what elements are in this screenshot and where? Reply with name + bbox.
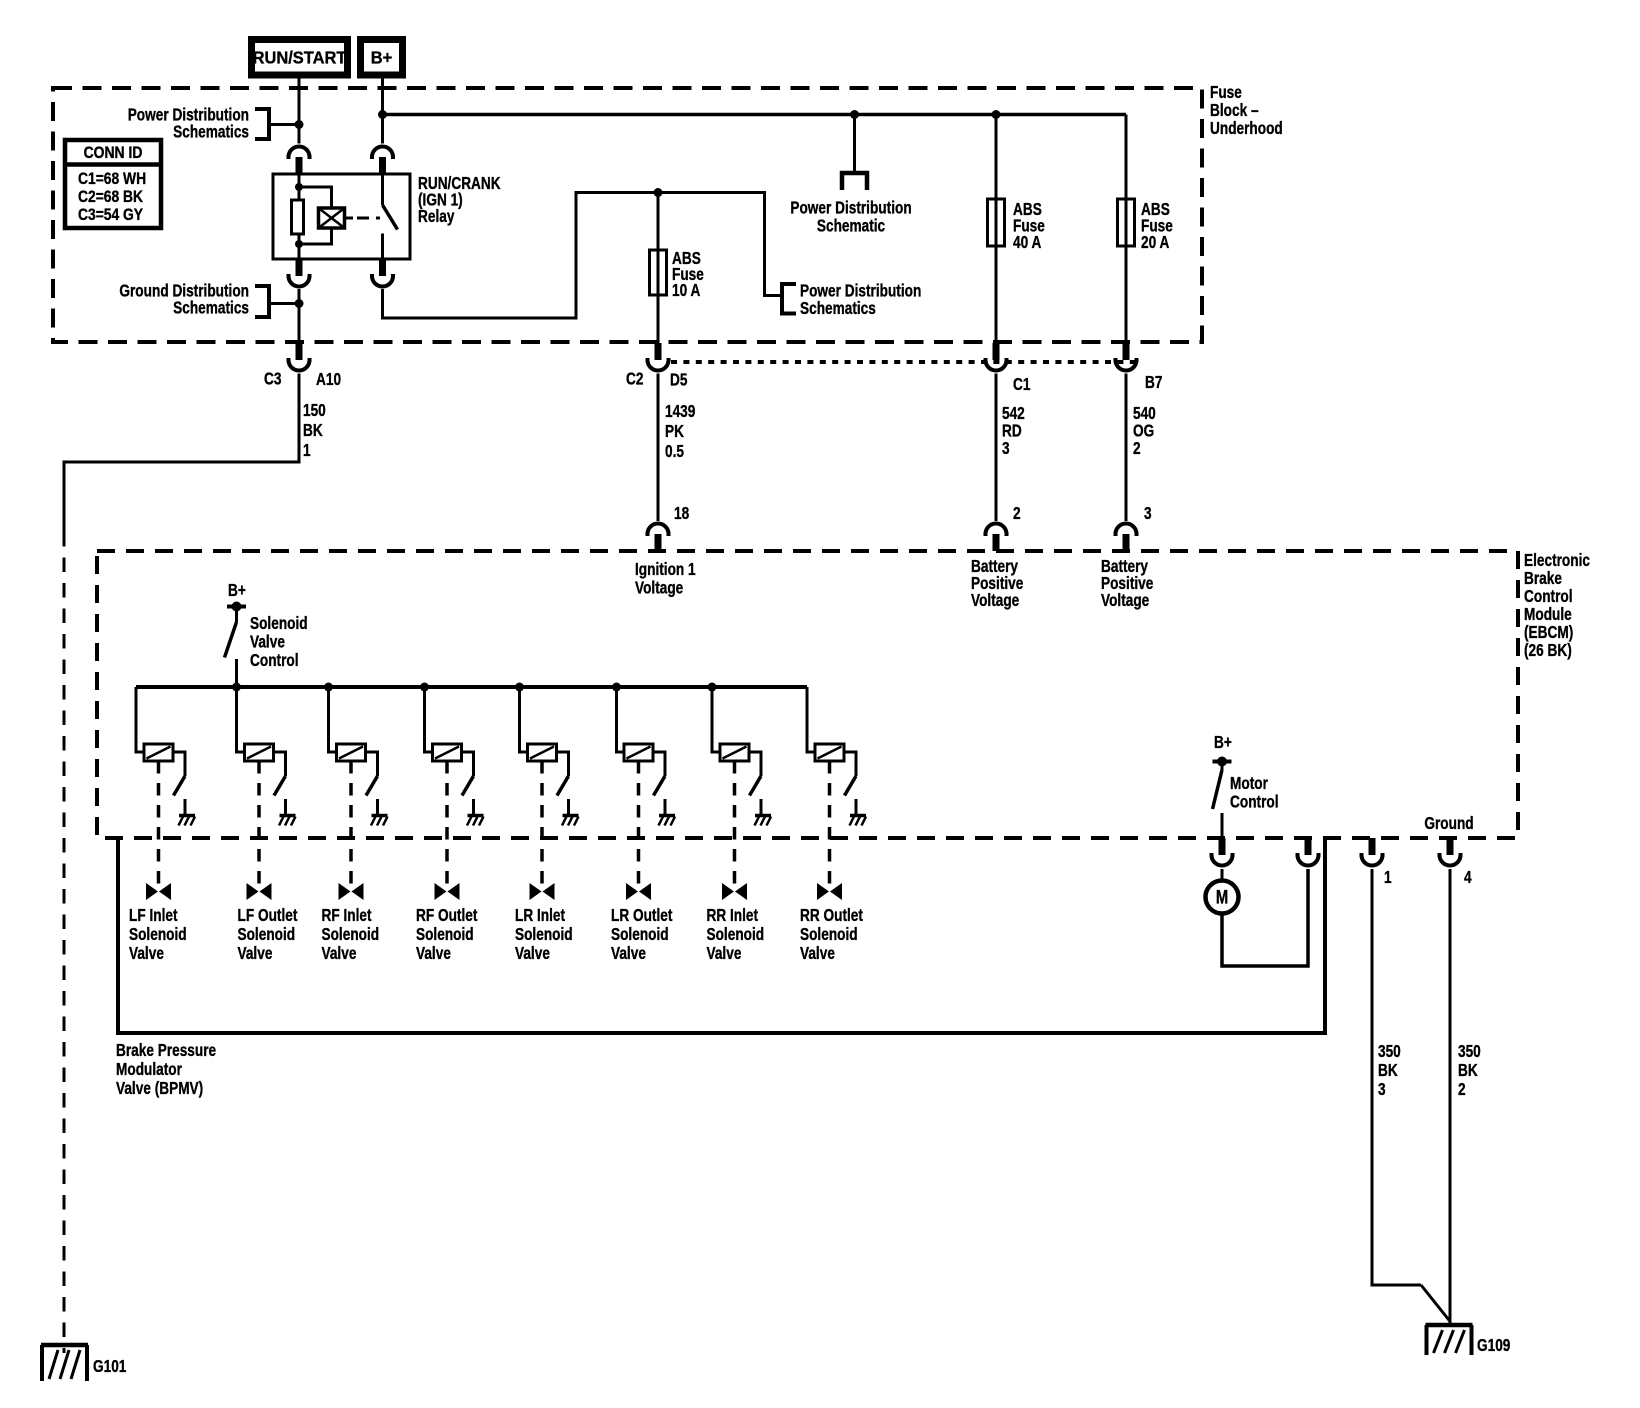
label Ignition 1 Voltage [635, 560, 696, 597]
solenoid driver LF Outlet [237, 687, 286, 814]
wire 1439 PK to EBCM pin 18 [657, 374, 660, 522]
svg-text:Valve: Valve [416, 944, 451, 963]
svg-text:3: 3 [1378, 1080, 1386, 1099]
svg-text:C3: C3 [264, 370, 282, 389]
ground G101 [41, 1345, 88, 1381]
B+ terminal solenoid valve control [227, 602, 246, 612]
connector EBCM motor return pin [1296, 838, 1321, 866]
label LR Inlet Solenoid Valve [515, 906, 573, 963]
svg-text:Valve: Valve [322, 944, 357, 963]
label B7 [1145, 373, 1163, 392]
label 350 BK 2 [1458, 1042, 1481, 1099]
fuse block underhood dashed box [53, 88, 1202, 342]
svg-text:B+: B+ [1214, 733, 1232, 752]
solenoid driver LR Outlet [617, 687, 666, 814]
label Electronic Brake Control Module (EBCM) (26 BK) [1524, 551, 1590, 660]
valve symbol RF Outlet Solenoid Valve [435, 883, 460, 900]
svg-text:Valve: Valve [238, 944, 273, 963]
svg-text:M: M [1216, 887, 1228, 908]
connector EBCM motor + pin [1210, 838, 1235, 866]
wire driver to LF Inlet solenoid valve (dashed) [157, 761, 161, 890]
svg-text:Brake Pressure: Brake Pressure [116, 1041, 216, 1060]
svg-text:D5: D5 [670, 371, 688, 390]
svg-text:Solenoid: Solenoid [416, 925, 474, 944]
solenoid driver RR Inlet [712, 687, 761, 814]
svg-text:Valve: Valve [129, 944, 164, 963]
connector C3/A10 [287, 343, 312, 371]
B+ terminal motor control [1213, 757, 1232, 767]
svg-text:18: 18 [674, 504, 689, 523]
valve symbol RF Inlet Solenoid Valve [339, 883, 364, 900]
wire motor return loop [1222, 869, 1308, 966]
connector EBCM pin 18 [646, 524, 671, 552]
svg-text:542: 542 [1002, 404, 1025, 423]
off-page reference Power Distribution Schematics (right) [782, 282, 921, 318]
svg-text:BK: BK [1378, 1061, 1398, 1080]
relay actuator dashed link [357, 217, 380, 220]
wire 150 BK dashed continuation to G101 [63, 532, 66, 1353]
relay coil resistor [292, 174, 304, 259]
svg-text:C2=68 BK: C2=68 BK [78, 188, 143, 206]
svg-text:RF Inlet: RF Inlet [322, 906, 373, 925]
svg-text:540: 540 [1133, 404, 1156, 423]
connector relay switch pin (fuse block socket) [370, 147, 395, 175]
junction node ground distribution tap [295, 299, 304, 308]
wire driver to RR Outlet solenoid valve (dashed) [828, 761, 832, 890]
wire 350 BK 2 to G109 [1449, 869, 1452, 1325]
label 542 RD 3 [1002, 404, 1025, 458]
svg-text:Schematics: Schematics [173, 299, 249, 318]
label pin 1 [1384, 868, 1392, 887]
connector EBCM pin 3 [1114, 524, 1139, 552]
label pin 2 [1013, 504, 1021, 523]
svg-text:Voltage: Voltage [971, 591, 1020, 610]
label A10 [316, 370, 341, 389]
label Brake Pressure Modulator Valve (BPMV) [116, 1041, 216, 1098]
label 540 OG 2 [1133, 404, 1156, 458]
label 1439 PK 0.5 [665, 402, 696, 461]
wire 350 BK 3 to G109 [1372, 869, 1451, 1322]
label B+ solenoid valve control [228, 581, 246, 600]
label LF Inlet Solenoid Valve [129, 906, 187, 963]
wire fuse 10A branch [657, 193, 660, 344]
relay RUN/CRANK (IGN 1) outline [273, 174, 410, 259]
node relay coil bottom [295, 240, 303, 248]
svg-text:2: 2 [1013, 504, 1021, 523]
svg-text:B+: B+ [371, 48, 393, 68]
svg-text:Module: Module [1524, 605, 1572, 624]
label LR Outlet Solenoid Valve [611, 906, 673, 963]
svg-text:BK: BK [1458, 1061, 1478, 1080]
label Motor Control [1230, 774, 1279, 811]
label C3 [264, 370, 282, 389]
svg-text:A10: A10 [316, 370, 341, 389]
svg-text:RR Inlet: RR Inlet [707, 906, 759, 925]
wire 542 RD to EBCM pin 2 [995, 374, 998, 522]
ground chassis (driver LR Inlet) [562, 816, 579, 826]
valve symbol LR Outlet Solenoid Valve [626, 883, 651, 900]
label 350 BK 3 [1378, 1042, 1401, 1099]
svg-text:Solenoid: Solenoid [129, 925, 187, 944]
junction node driver bus tap RF Inlet [324, 683, 333, 692]
svg-text:C1: C1 [1013, 375, 1031, 394]
ground chassis (driver LF Outlet) [279, 816, 296, 826]
connector B7 [1114, 343, 1139, 371]
label C1 [1013, 375, 1031, 394]
label RUN/CRANK (IGN 1) Relay [418, 174, 501, 226]
label RF Outlet Solenoid Valve [416, 906, 478, 963]
label C2 [626, 370, 644, 389]
svg-text:40 A: 40 A [1013, 233, 1041, 252]
svg-text:Voltage: Voltage [635, 579, 684, 598]
wire fuse 40A branch [995, 115, 998, 344]
svg-text:Relay: Relay [418, 207, 455, 226]
relay switch contact [383, 174, 398, 259]
label Solenoid Valve Control [250, 614, 308, 670]
svg-text:(EBCM): (EBCM) [1524, 623, 1573, 642]
label B+ motor control [1214, 733, 1232, 752]
svg-text:RF Outlet: RF Outlet [416, 906, 478, 925]
svg-text:LF Inlet: LF Inlet [129, 906, 178, 925]
power feed tag RUN/START [252, 40, 348, 76]
svg-text:BK: BK [303, 421, 323, 440]
svg-text:Control: Control [1524, 587, 1573, 606]
svg-text:RD: RD [1002, 422, 1022, 441]
ground chassis (driver RR Outlet) [850, 816, 867, 826]
svg-text:Valve: Valve [611, 944, 646, 963]
svg-text:Schematics: Schematics [173, 123, 249, 142]
junction node fuse 40A tap [992, 110, 1001, 119]
valve symbol RR Inlet Solenoid Valve [722, 883, 747, 900]
wire fuse 20A branch [1125, 115, 1128, 344]
svg-text:Solenoid: Solenoid [800, 925, 858, 944]
off-page reference Ground Distribution Schematics [119, 282, 299, 318]
svg-text:2: 2 [1133, 439, 1141, 458]
label RR Outlet Solenoid Valve [800, 906, 864, 963]
solenoid driver RF Outlet [425, 687, 474, 814]
label D5 [670, 371, 688, 390]
pump motor M [1206, 869, 1239, 914]
connector EBCM pin 1 [1360, 838, 1385, 866]
svg-text:C3=54 GY: C3=54 GY [78, 206, 143, 224]
connector relay coil pin 85 (bottom) [287, 259, 312, 287]
connector EBCM pin 4 (ground) [1438, 838, 1463, 866]
svg-text:Underhood: Underhood [1210, 119, 1283, 138]
wire driver to LR Outlet solenoid valve (dashed) [637, 761, 641, 890]
wire relay switch output to ABS fuse 10A feed [383, 193, 781, 319]
label Battery Positive Voltage (pin 3) [1101, 557, 1154, 610]
switch motor control [1213, 762, 1223, 839]
valve symbol RR Outlet Solenoid Valve [817, 883, 842, 900]
ground chassis (driver RF Inlet) [371, 816, 388, 826]
junction node driver bus tap LF Outlet [232, 683, 241, 692]
label pin 3 [1144, 504, 1152, 523]
label G109 [1477, 1336, 1511, 1355]
svg-text:20 A: 20 A [1141, 233, 1169, 252]
off-page reference Power Distribution Schematics (left) [128, 106, 299, 142]
svg-text:350: 350 [1378, 1042, 1401, 1061]
junction node power distribution tap [295, 120, 304, 129]
wire 150 BK to G101 (solid part) [64, 374, 299, 533]
label RF Inlet Solenoid Valve [322, 906, 380, 963]
svg-text:3: 3 [1002, 439, 1010, 458]
ground chassis (driver RR Inlet) [755, 816, 772, 826]
wire driver to RF Inlet solenoid valve (dashed) [349, 761, 353, 890]
svg-text:0.5: 0.5 [665, 442, 684, 461]
svg-text:C2: C2 [626, 370, 644, 389]
junction node driver bus tap RR Inlet [708, 683, 717, 692]
svg-text:OG: OG [1133, 422, 1154, 441]
wire B+ down to relay switch connector [381, 75, 384, 144]
svg-text:Solenoid: Solenoid [238, 925, 296, 944]
connector EBCM pin 2 [984, 524, 1009, 552]
svg-text:1: 1 [1384, 868, 1392, 887]
EBCM harness connector dotted line [671, 360, 1140, 364]
svg-text:G101: G101 [93, 1357, 127, 1376]
junction node fuse 10A feed [654, 188, 663, 197]
svg-text:Ignition 1: Ignition 1 [635, 560, 696, 579]
label 150 BK 1 [303, 401, 326, 460]
svg-text:Voltage: Voltage [1101, 591, 1150, 610]
junction node driver bus tap LR Inlet [515, 683, 524, 692]
svg-text:B+: B+ [228, 581, 246, 600]
EBCM dashed box [97, 551, 1518, 838]
solenoid driver RF Inlet [329, 687, 378, 814]
off-page stub Power Distribution Schematic (top) [790, 115, 911, 236]
svg-text:B7: B7 [1145, 373, 1163, 392]
svg-text:1: 1 [303, 441, 311, 460]
svg-text:C1=68 WH: C1=68 WH [78, 170, 146, 188]
svg-text:Valve: Valve [800, 944, 835, 963]
svg-text:LF Outlet: LF Outlet [238, 906, 299, 925]
solenoid driver bus wire [136, 685, 807, 689]
svg-text:Solenoid: Solenoid [611, 925, 669, 944]
label pin 4 [1464, 868, 1472, 887]
svg-text:Block –: Block – [1210, 101, 1259, 120]
valve symbol LF Inlet Solenoid Valve [146, 883, 171, 900]
label RR Inlet Solenoid Valve [707, 906, 765, 963]
svg-text:PK: PK [665, 422, 685, 441]
wire driver to RF Outlet solenoid valve (dashed) [445, 761, 449, 890]
valve symbol LR Inlet Solenoid Valve [530, 883, 555, 900]
power feed tag B+ [361, 40, 403, 76]
top bus wire B+ to ABS fuses [383, 113, 1127, 117]
svg-text:Schematic: Schematic [817, 217, 885, 236]
ground chassis (driver RF Outlet) [467, 816, 484, 826]
valve symbol LF Outlet Solenoid Valve [247, 883, 272, 900]
label pin 18 [674, 504, 689, 523]
svg-text:350: 350 [1458, 1042, 1481, 1061]
svg-text:RR Outlet: RR Outlet [800, 906, 864, 925]
label Ground [1424, 814, 1473, 833]
ground G109 [1426, 1325, 1473, 1355]
svg-text:Schematics: Schematics [800, 299, 876, 318]
wire driver to LR Inlet solenoid valve (dashed) [540, 761, 544, 890]
svg-text:Valve: Valve [707, 944, 742, 963]
ABS Fuse 40 A [988, 199, 1046, 252]
BPMV outline box [118, 838, 1325, 1033]
svg-text:Brake: Brake [1524, 569, 1562, 588]
svg-text:RUN/START: RUN/START [253, 48, 347, 68]
svg-text:150: 150 [303, 401, 326, 420]
svg-text:10 A: 10 A [672, 281, 700, 300]
svg-text:3: 3 [1144, 504, 1152, 523]
svg-text:Electronic: Electronic [1524, 551, 1590, 570]
wire relay coil to C3 exit [298, 289, 301, 343]
ABS Fuse 10 A [650, 249, 705, 300]
connector C1 [984, 343, 1009, 371]
svg-text:Power Distribution: Power Distribution [800, 282, 921, 301]
CONN ID table [63, 140, 163, 228]
switch solenoid valve control [225, 607, 237, 689]
svg-text:CONN ID: CONN ID [84, 144, 143, 163]
svg-text:Solenoid: Solenoid [250, 614, 308, 633]
label Battery Positive Voltage (pin 2) [971, 557, 1024, 610]
svg-text:Fuse: Fuse [1210, 83, 1242, 102]
svg-text:2: 2 [1458, 1080, 1466, 1099]
label G101 [93, 1357, 127, 1376]
svg-text:Valve (BPMV): Valve (BPMV) [116, 1079, 203, 1098]
connector relay coil pin (fuse block socket) [287, 147, 312, 175]
junction node B+ bus [378, 110, 387, 119]
svg-text:G109: G109 [1477, 1336, 1511, 1355]
svg-text:Ground: Ground [1424, 814, 1473, 833]
ground chassis (driver LR Outlet) [659, 816, 676, 826]
svg-text:Valve: Valve [250, 633, 285, 652]
node relay coil top [295, 183, 303, 191]
connector relay switch output pin (bottom) [370, 259, 395, 287]
connector C2/D5 [646, 343, 671, 371]
wire driver to RR Inlet solenoid valve (dashed) [733, 761, 737, 890]
junction node driver bus tap LR Outlet [612, 683, 621, 692]
svg-text:Valve: Valve [515, 944, 550, 963]
svg-text:4: 4 [1464, 868, 1472, 887]
svg-text:Control: Control [1230, 793, 1279, 812]
wire 540 OG to EBCM pin 3 [1125, 374, 1128, 522]
svg-text:(26 BK): (26 BK) [1524, 641, 1572, 660]
svg-text:LR Inlet: LR Inlet [515, 906, 566, 925]
relay winding symbol [299, 187, 353, 244]
wire RUN/START down to relay coil connector [298, 75, 301, 144]
solenoid driver LR Inlet [520, 687, 569, 814]
svg-text:Solenoid: Solenoid [515, 925, 573, 944]
label LF Outlet Solenoid Valve [238, 906, 299, 963]
solenoid driver LF Inlet [136, 687, 185, 814]
svg-text:Modulator: Modulator [116, 1060, 182, 1079]
svg-text:Solenoid: Solenoid [322, 925, 380, 944]
svg-text:Control: Control [250, 651, 299, 670]
svg-text:LR Outlet: LR Outlet [611, 906, 673, 925]
ABS Fuse 20 A [1118, 199, 1174, 252]
wire driver to LF Outlet solenoid valve (dashed) [257, 761, 261, 890]
ground chassis (driver LF Inlet) [179, 816, 196, 826]
svg-text:Power Distribution: Power Distribution [790, 199, 911, 218]
junction node top bus / schematic stub [850, 110, 859, 119]
svg-text:1439: 1439 [665, 402, 696, 421]
label Fuse Block - Underhood [1210, 83, 1283, 138]
svg-text:Motor: Motor [1230, 774, 1268, 793]
svg-text:Solenoid: Solenoid [707, 925, 765, 944]
junction node driver bus tap RF Outlet [420, 683, 429, 692]
solenoid driver RR Outlet [807, 687, 856, 814]
